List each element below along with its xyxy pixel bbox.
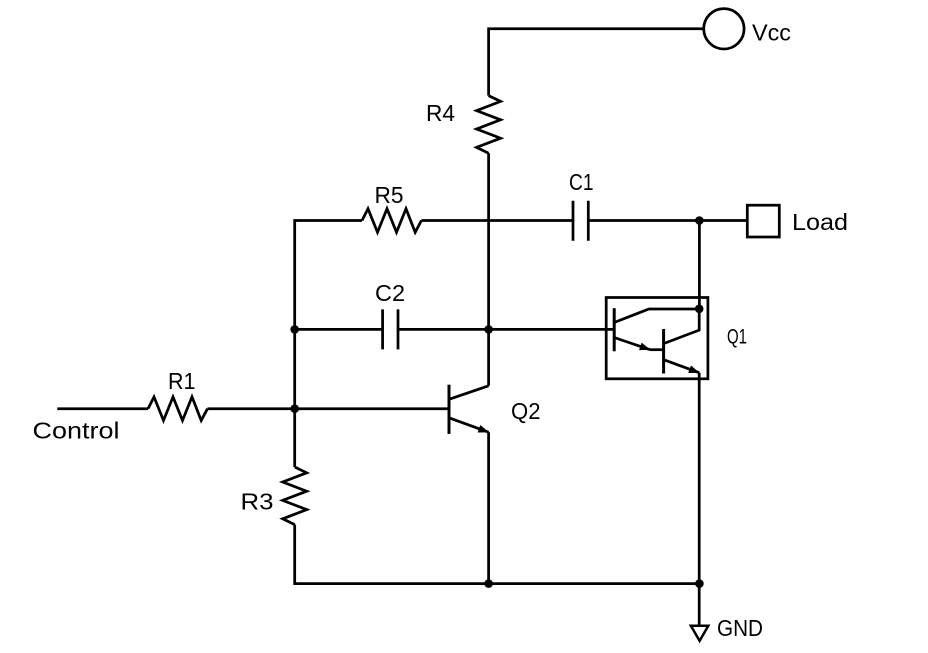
transistor Q1 (Darlington pair) xyxy=(606,298,708,379)
svg-text:Q1: Q1 xyxy=(727,326,747,349)
svg-text:Control: Control xyxy=(33,418,120,444)
wire C2 row left xyxy=(295,328,383,331)
wire Q2 emitter down to bottom row xyxy=(487,432,490,583)
wire R1 to Q2 base xyxy=(208,407,450,410)
resistor R3 xyxy=(283,467,307,525)
wire left rail bottom section to bottom row corner xyxy=(295,525,700,584)
junction dot bottom row / right rail xyxy=(695,579,704,588)
wire R4 bottom to Q2 collector xyxy=(487,153,490,386)
wire Vcc horizontal and down to R4 top xyxy=(489,29,703,96)
junction dot center rail / C2 row xyxy=(484,325,493,334)
wire top row left rail corner to R5 xyxy=(295,221,362,468)
wire Control input xyxy=(57,407,148,410)
junction dot inside Q1 xyxy=(695,305,704,314)
svg-text:Vcc: Vcc xyxy=(752,20,791,46)
junction dot left rail / C2 row xyxy=(290,325,299,334)
junction dot bottom row / Q2 emitter xyxy=(484,579,493,588)
svg-text:Q2: Q2 xyxy=(511,398,541,424)
junction dot left rail / control row xyxy=(290,404,299,413)
power symbol Vcc xyxy=(704,9,744,49)
wire R5 to C1 left plate xyxy=(421,219,573,222)
svg-text:R1: R1 xyxy=(168,368,196,394)
wire C2 right plate to Q1 base xyxy=(398,328,614,331)
capacitor C1 xyxy=(573,201,588,241)
transistor Q2 xyxy=(449,385,489,434)
svg-text:C1: C1 xyxy=(569,169,594,195)
capacitor C2 xyxy=(383,309,398,349)
svg-text:R5: R5 xyxy=(375,182,404,208)
wire right rail from Load node into Q1 xyxy=(698,221,701,309)
terminal Load box xyxy=(747,205,779,237)
resistor R5 xyxy=(362,209,421,233)
svg-text:R3: R3 xyxy=(241,489,274,515)
junction dot Load node xyxy=(695,216,704,225)
wire Load node to Load box xyxy=(699,219,747,222)
wire Q1 emitter down to ground row xyxy=(698,373,701,625)
svg-text:Load: Load xyxy=(792,209,848,235)
wire C1 right plate to Load node xyxy=(588,219,699,222)
svg-text:GND: GND xyxy=(717,615,763,641)
svg-text:R4: R4 xyxy=(426,100,455,126)
resistor R1 xyxy=(148,397,208,421)
ground symbol xyxy=(691,626,708,641)
svg-text:C2: C2 xyxy=(375,280,405,306)
resistor R4 xyxy=(477,96,501,154)
